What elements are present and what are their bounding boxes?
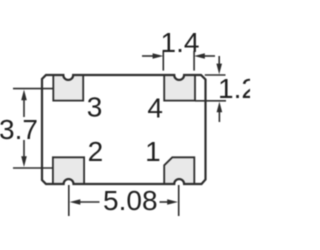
- dim 1.4 extension line left: [162, 51, 164, 71]
- dim 3.7 down arrow: [23, 140, 25, 158]
- dim 5.08 right arrow: [160, 201, 169, 203]
- dim 1.2 down arrow: [218, 56, 220, 65]
- pad 4 (top-right): [164, 75, 195, 101]
- svg-text:3: 3: [87, 92, 103, 123]
- dim 3.7 up arrow: [21, 90, 27, 101]
- svg-text:5.08: 5.08: [103, 185, 158, 216]
- dim 5.08 left arrow: [70, 199, 81, 205]
- dim 3.7 extension line bottom: [13, 167, 53, 169]
- svg-text:3.7: 3.7: [0, 114, 38, 145]
- pad 3 (top-left): [53, 75, 83, 101]
- svg-text:2: 2: [88, 136, 104, 167]
- dim 1.4 right arrow: [204, 55, 215, 57]
- dim 1.4 extension line right: [193, 51, 195, 71]
- svg-text:4: 4: [147, 93, 163, 124]
- dim 1.2 up arrow: [218, 112, 220, 123]
- dim 5.08 extension line right: [178, 185, 180, 216]
- dim 1.2 extension line top: [205, 74, 226, 76]
- pad 2 (bottom-left): [53, 157, 84, 184]
- svg-text:1: 1: [145, 136, 161, 167]
- dim 1.2 extension line bottom: [195, 100, 226, 102]
- dim 3.7 extension line top: [13, 88, 53, 90]
- package outline: [42, 75, 206, 184]
- svg-text:1.4: 1.4: [161, 27, 200, 58]
- dim 1.4 left arrow: [142, 55, 154, 57]
- svg-text:1.2: 1.2: [218, 73, 250, 104]
- pad 1 (bottom-right, chamfered pin-1 corner): [164, 157, 194, 184]
- dim 5.08 extension line left: [68, 185, 70, 216]
